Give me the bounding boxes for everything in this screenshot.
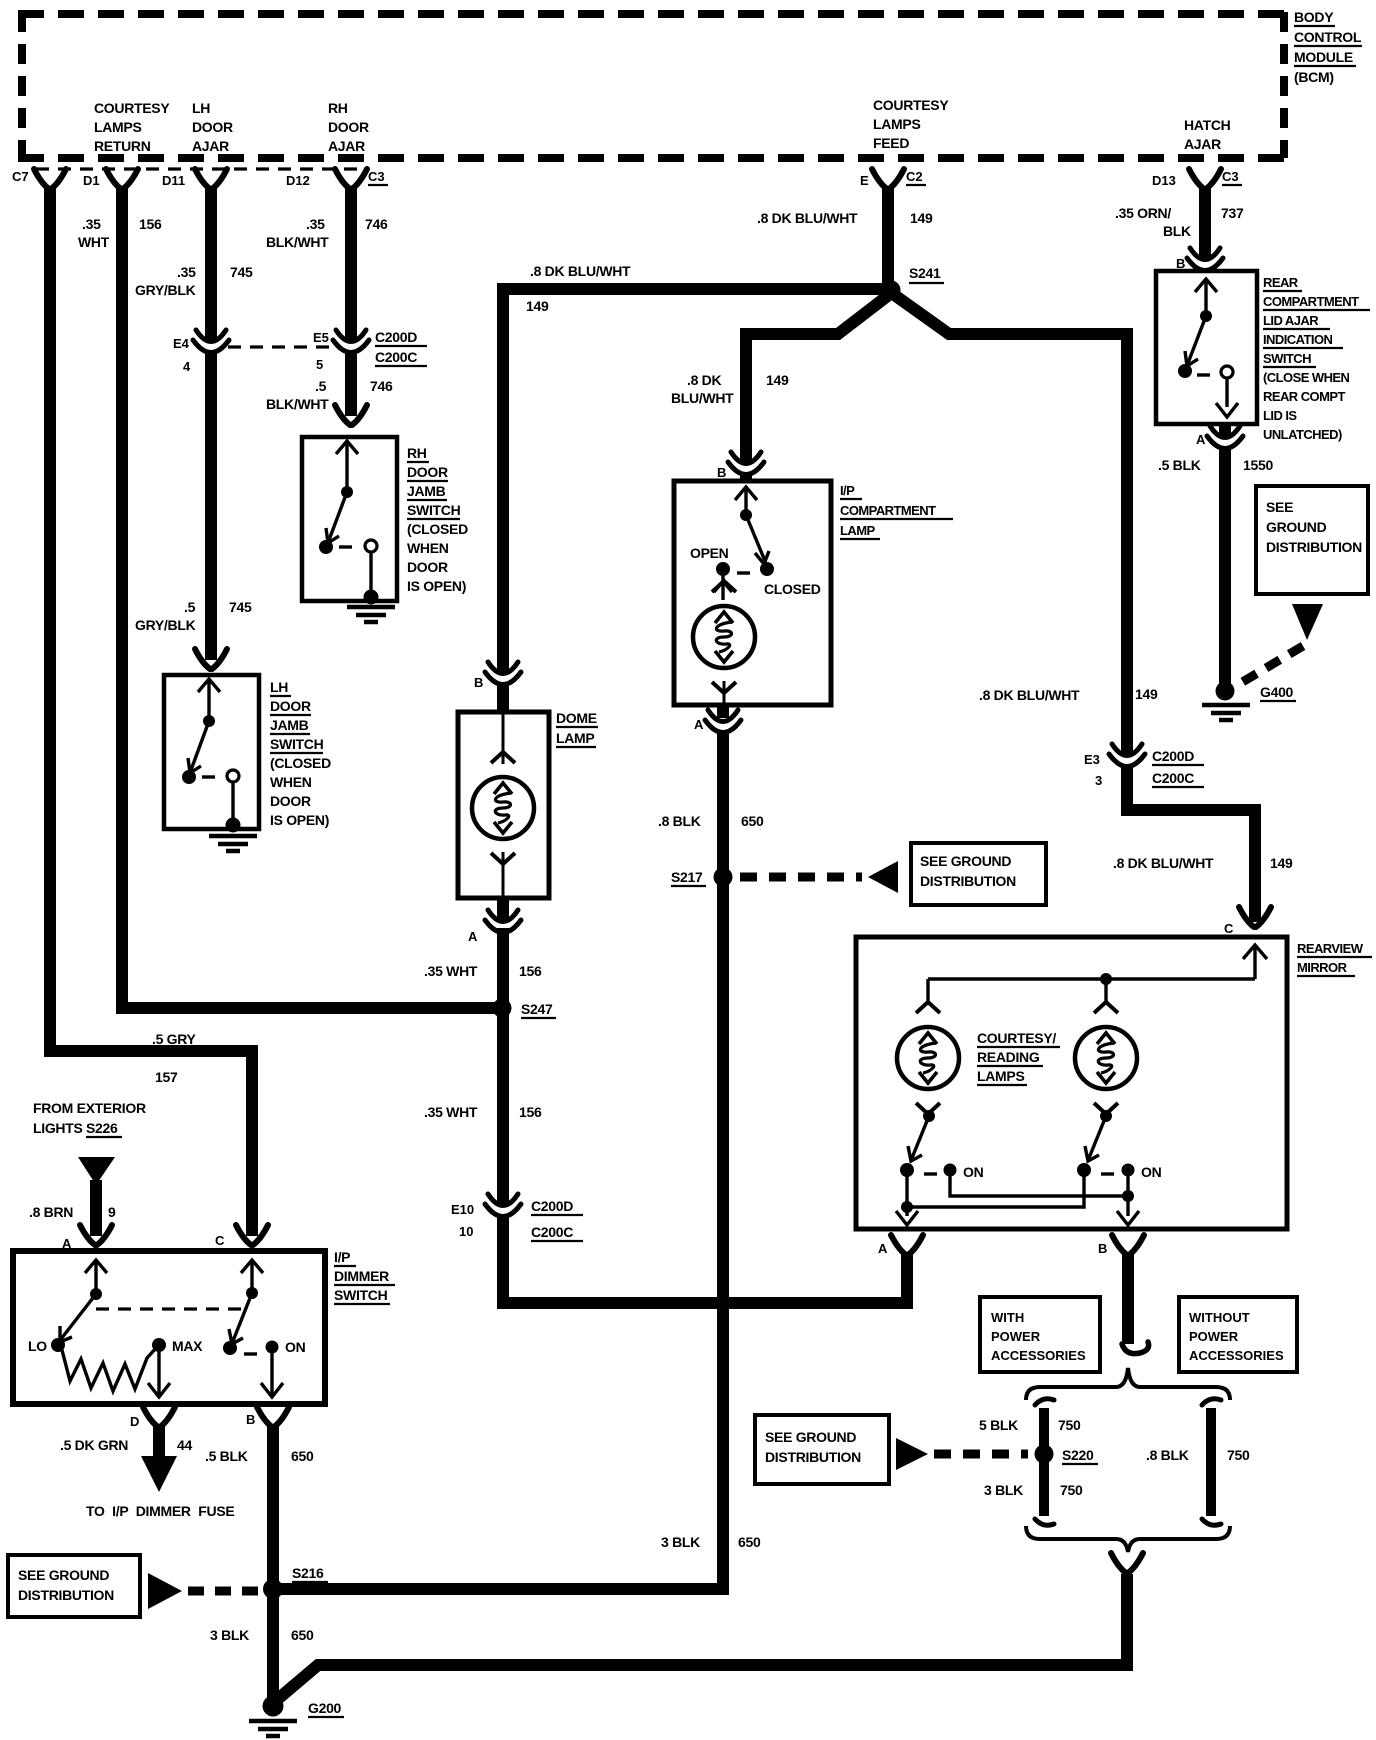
svg-text:149: 149	[526, 298, 549, 314]
connector B of dome lamp	[485, 662, 521, 685]
upper brace	[1026, 1368, 1230, 1400]
svg-text:C200C: C200C	[531, 1224, 573, 1240]
connector B of rear compartment switch	[1199, 254, 1211, 256]
svg-text:C: C	[1224, 921, 1234, 936]
wire .8 BRN 9 to dimmer A	[90, 1180, 102, 1236]
svg-text:DISTRIBUTION: DISTRIBUTION	[920, 873, 1016, 889]
svg-text:LAMPS: LAMPS	[977, 1068, 1025, 1084]
splice S247	[493, 999, 512, 1018]
svg-text:SWITCH: SWITCH	[270, 736, 324, 752]
wire .5 BLK 1550 to G400	[1219, 448, 1231, 684]
connector C7	[34, 169, 66, 189]
courtesy/reading lamps label	[977, 1030, 1056, 1084]
svg-text:S241: S241	[909, 265, 941, 281]
I/P compartment lamp label	[840, 483, 936, 538]
svg-text:AJAR: AJAR	[328, 138, 365, 154]
svg-text:RETURN: RETURN	[94, 138, 151, 154]
svg-text:GRY/BLK: GRY/BLK	[135, 617, 196, 633]
svg-text:.5 BLK: .5 BLK	[205, 1448, 248, 1464]
connector E3 (C200D/C200C)	[1109, 744, 1145, 767]
rear compartment lid switch box	[1156, 271, 1257, 424]
svg-text:S216: S216	[292, 1565, 324, 1581]
svg-text:D12: D12	[286, 173, 310, 188]
svg-text:GROUND: GROUND	[1266, 519, 1327, 535]
label .5 GRY 157	[152, 1031, 197, 1085]
I/P dimmer switch label	[334, 1249, 389, 1303]
arrow to S216	[148, 1573, 182, 1609]
svg-text:GRY/BLK: GRY/BLK	[135, 282, 196, 298]
svg-text:AJAR: AJAR	[192, 138, 229, 154]
svg-text:MODULE: MODULE	[1294, 49, 1353, 65]
ground below RH jamb switch	[347, 607, 395, 622]
wire D11 .35 GRY/BLK 745 down to E4	[205, 186, 217, 342]
svg-text:E10: E10	[451, 1202, 474, 1217]
svg-text:LID IS: LID IS	[1263, 408, 1297, 423]
svg-text:.5: .5	[315, 378, 327, 394]
ground below LH jamb switch	[209, 836, 257, 851]
svg-text:C2: C2	[906, 169, 923, 184]
svg-text:SWITCH: SWITCH	[1263, 351, 1311, 366]
svg-text:SWITCH: SWITCH	[407, 502, 461, 518]
svg-text:POWER: POWER	[991, 1329, 1041, 1344]
svg-text:ON: ON	[1141, 1164, 1162, 1180]
connector E10 (C200D/C200C)	[485, 1194, 521, 1217]
svg-text:SEE GROUND: SEE GROUND	[18, 1567, 109, 1583]
svg-text:WHT: WHT	[78, 234, 110, 250]
splice S216	[263, 1579, 283, 1599]
RH switch internals	[326, 441, 371, 594]
svg-text:650: 650	[291, 1627, 314, 1643]
svg-text:5 BLK: 5 BLK	[979, 1417, 1018, 1433]
svg-text:REARVIEW: REARVIEW	[1297, 941, 1364, 956]
svg-text:.5 BLK: .5 BLK	[1158, 457, 1201, 473]
svg-text:I/P: I/P	[334, 1249, 350, 1265]
svg-text:ACCESSORIES: ACCESSORIES	[991, 1348, 1086, 1363]
svg-text:LAMPS: LAMPS	[873, 116, 921, 132]
svg-text:737: 737	[1221, 205, 1244, 221]
svg-text:D: D	[130, 1414, 139, 1429]
svg-text:C200D: C200D	[1152, 748, 1194, 764]
svg-text:IS OPEN): IS OPEN)	[270, 812, 329, 828]
wire .8 BLK 750 (without power accessories)	[1206, 1408, 1216, 1516]
svg-text:B: B	[246, 1412, 255, 1427]
splice S217	[714, 868, 733, 887]
RH jamb switch label	[407, 445, 468, 594]
svg-text:JAMB: JAMB	[270, 717, 309, 733]
svg-text:746: 746	[365, 216, 388, 232]
svg-text:C: C	[215, 1233, 225, 1248]
svg-text:S247: S247	[521, 1001, 553, 1017]
pin D1	[106, 169, 138, 189]
wire D1 .35 WHT 156 down to S247	[122, 186, 498, 1008]
svg-text:9: 9	[108, 1204, 116, 1220]
connector E5 (C200D/C200C)	[333, 330, 369, 353]
svg-text:3: 3	[1095, 773, 1102, 788]
right mirror switch	[1085, 1116, 1139, 1225]
svg-text:BLK/WHT: BLK/WHT	[266, 234, 329, 250]
wire .5 GRY/BLK 745 E4 to LH jamb switch	[205, 354, 217, 660]
connector fork at LH jamb switch	[195, 649, 227, 669]
svg-text:3 BLK: 3 BLK	[661, 1534, 700, 1550]
svg-text:DOOR: DOOR	[407, 559, 448, 575]
svg-text:DOME: DOME	[556, 710, 597, 726]
svg-text:.8 BLK: .8 BLK	[658, 813, 701, 829]
svg-text:156: 156	[519, 963, 542, 979]
svg-text:650: 650	[291, 1448, 314, 1464]
connector A of rear switch	[1219, 424, 1231, 436]
BCM dashed box	[18, 12, 1284, 158]
left mirror switch	[896, 1116, 1128, 1225]
see ground distribution box (G400)	[1256, 486, 1368, 594]
connector A of dimmer switch	[80, 1225, 112, 1245]
svg-text:156: 156	[139, 216, 162, 232]
svg-text:1550: 1550	[1243, 457, 1273, 473]
dashed link to S220	[934, 1450, 1028, 1459]
svg-text:C200D: C200D	[375, 329, 417, 345]
I/P compartment lamp box	[674, 481, 831, 705]
svg-text:DOOR: DOOR	[270, 698, 311, 714]
LH switch internals	[188, 679, 233, 822]
label .35 WHT 156	[78, 216, 162, 250]
ground G400	[1216, 682, 1235, 701]
wire S241 branch right to E3 (.8 DK BLU/WHT 149)	[893, 294, 1127, 756]
wire .5 BLK/WHT 746 E5 to RH jamb switch	[345, 354, 357, 416]
connector A of I/P compartment lamp	[717, 705, 729, 718]
splice S220	[1035, 1445, 1054, 1464]
svg-text:149: 149	[910, 210, 933, 226]
svg-text:745: 745	[229, 599, 252, 615]
connector A of mirror	[891, 1235, 923, 1255]
svg-text:HATCH: HATCH	[1184, 117, 1231, 133]
svg-text:.35: .35	[306, 216, 325, 232]
pin function labels	[94, 97, 1231, 154]
svg-text:DOOR: DOOR	[407, 464, 448, 480]
svg-text:COMPARTMENT: COMPARTMENT	[840, 503, 936, 518]
arrow down from box	[1292, 604, 1323, 640]
svg-text:DOOR: DOOR	[270, 793, 311, 809]
svg-text:RH: RH	[328, 100, 348, 116]
svg-text:D11: D11	[162, 173, 185, 188]
svg-text:C3: C3	[368, 169, 385, 184]
svg-text:LAMP: LAMP	[840, 523, 876, 538]
I/P lamp switch internals	[714, 487, 769, 600]
pin D12 / connector C3	[335, 169, 367, 189]
svg-text:BLK: BLK	[1163, 223, 1191, 239]
wire 5 BLK / 3 BLK 750 (with power accessories)	[1039, 1408, 1049, 1516]
svg-text:750: 750	[1227, 1447, 1250, 1463]
svg-text:.5 DK GRN: .5 DK GRN	[60, 1437, 128, 1453]
svg-text:BLU/WHT: BLU/WHT	[671, 390, 734, 406]
svg-text:RH: RH	[407, 445, 427, 461]
svg-text:LIGHTS: LIGHTS	[33, 1120, 83, 1136]
svg-text:FROM EXTERIOR: FROM EXTERIOR	[33, 1100, 146, 1116]
svg-text:LH: LH	[192, 100, 210, 116]
wire from braces down to G200 run	[1111, 1553, 1143, 1573]
svg-text:.35 WHT: .35 WHT	[424, 963, 478, 979]
arrow to S217	[868, 861, 898, 893]
wire .35 WHT 156 S247 to E10	[497, 1008, 509, 1206]
svg-text:LAMPS: LAMPS	[94, 119, 142, 135]
dome lamp box	[458, 712, 549, 898]
connector B of dimmer	[257, 1407, 289, 1427]
lower brace	[1026, 1526, 1230, 1552]
svg-text:157: 157	[155, 1069, 178, 1085]
svg-text:.8 BLK: .8 BLK	[1146, 1447, 1189, 1463]
svg-text:C200C: C200C	[1152, 770, 1194, 786]
svg-text:D13: D13	[1152, 173, 1176, 188]
see ground distribution box (S217)	[911, 843, 1046, 905]
svg-text:DISTRIBUTION: DISTRIBUTION	[18, 1587, 114, 1603]
svg-text:.35 WHT: .35 WHT	[424, 1104, 478, 1120]
svg-text:S220: S220	[1062, 1447, 1094, 1463]
connector B of I/P compartment lamp	[728, 452, 764, 475]
svg-text:C200C: C200C	[375, 349, 417, 365]
FROM EXTERIOR LIGHTS S226	[33, 1100, 146, 1136]
I/P lamp bulb	[693, 581, 755, 693]
svg-text:SWITCH: SWITCH	[334, 1287, 388, 1303]
svg-text:.8 DK BLU/WHT: .8 DK BLU/WHT	[1113, 855, 1214, 871]
svg-text:S217: S217	[671, 869, 703, 885]
svg-text:149: 149	[766, 372, 789, 388]
svg-text:TO I/P DIMMER FUSE: TO I/P DIMMER FUSE	[86, 1503, 234, 1519]
label .35 GRY/BLK 745	[135, 264, 253, 298]
rearview mirror box	[856, 937, 1287, 1229]
svg-text:A: A	[878, 1241, 888, 1256]
svg-text:AJAR: AJAR	[1184, 136, 1221, 152]
svg-text:B: B	[1098, 1241, 1107, 1256]
wire .5 BLK 650 dimmer B to S216/G200	[267, 1424, 279, 1698]
courtesy/reading lamp right	[1075, 1002, 1137, 1114]
courtesy/reading lamp left	[897, 1002, 959, 1114]
svg-text:.35: .35	[82, 216, 101, 232]
svg-text:WHEN: WHEN	[270, 774, 312, 790]
svg-text:I/P: I/P	[840, 483, 855, 498]
dashed link to G400	[1234, 646, 1303, 687]
wire .35 WHT 156 dome A to S247	[497, 928, 509, 1008]
svg-text:MAX: MAX	[172, 1338, 203, 1354]
svg-text:INDICATION: INDICATION	[1263, 332, 1333, 347]
svg-text:C3: C3	[1222, 169, 1239, 184]
svg-text:COURTESY: COURTESY	[873, 97, 949, 113]
label .35 BLK/WHT 746	[266, 216, 388, 250]
svg-text:ON: ON	[285, 1339, 306, 1355]
connector E4 (C200D/C200C)	[193, 330, 229, 353]
svg-text:A: A	[1196, 432, 1206, 447]
wire E .8 DK BLU/WHT 149 down to S241	[882, 186, 894, 288]
see ground distribution box (S220)	[755, 1415, 889, 1484]
svg-text:CONTROL: CONTROL	[1294, 29, 1362, 45]
svg-text:746: 746	[370, 378, 393, 394]
svg-text:DISTRIBUTION: DISTRIBUTION	[1266, 539, 1362, 555]
svg-text:750: 750	[1060, 1482, 1083, 1498]
ground G200	[263, 1696, 284, 1717]
mirror internal feed from C	[928, 945, 1267, 1004]
svg-text:LH: LH	[270, 679, 288, 695]
svg-text:BODY: BODY	[1294, 9, 1334, 25]
arrow to S220	[896, 1438, 928, 1470]
svg-text:POWER: POWER	[1189, 1329, 1239, 1344]
svg-text:149: 149	[1135, 686, 1158, 702]
svg-text:.8 DK BLU/WHT: .8 DK BLU/WHT	[757, 210, 858, 226]
svg-text:(BCM): (BCM)	[1294, 69, 1334, 85]
pin E / connector C2	[872, 169, 904, 189]
dashed link to S216	[188, 1587, 258, 1596]
svg-text:ACCESSORIES: ACCESSORIES	[1189, 1348, 1284, 1363]
svg-text:WITHOUT: WITHOUT	[1189, 1310, 1250, 1325]
svg-text:SEE: SEE	[1266, 499, 1293, 515]
svg-text:C7: C7	[12, 169, 29, 184]
rear switch label	[1263, 275, 1359, 442]
svg-text:SEE GROUND: SEE GROUND	[920, 853, 1011, 869]
wire D13 .35 ORN/BLK 737 down to rear switch B	[1199, 186, 1211, 260]
pin D11	[195, 169, 227, 189]
wire S241 branch to I/P compartment lamp	[746, 294, 890, 464]
svg-text:750: 750	[1058, 1417, 1081, 1433]
svg-text:S226: S226	[86, 1120, 118, 1136]
svg-text:.8 BRN: .8 BRN	[29, 1204, 73, 1220]
wire E10 to rearview mirror A	[503, 1218, 907, 1303]
wire mirror B down to brace	[1122, 1254, 1134, 1344]
connector fork at RH jamb switch	[335, 405, 367, 425]
svg-text:READING: READING	[977, 1049, 1040, 1065]
svg-text:BLK/WHT: BLK/WHT	[266, 396, 329, 412]
svg-text:(CLOSED: (CLOSED	[407, 521, 468, 537]
pin D13 / connector C3	[1189, 169, 1221, 189]
connector A of dome lamp	[497, 898, 509, 920]
svg-text:LAMP: LAMP	[556, 730, 594, 746]
svg-text:COMPARTMENT: COMPARTMENT	[1263, 294, 1359, 309]
svg-text:UNLATCHED): UNLATCHED)	[1263, 427, 1342, 442]
svg-text:A: A	[694, 717, 704, 732]
svg-text:44: 44	[177, 1437, 192, 1453]
wire S241 left branch to dome lamp (.8 DK BLU/WHT 149)	[503, 289, 888, 674]
wire .5 DK GRN 44 to I/P dimmer fuse	[153, 1424, 165, 1458]
dashed link E4-E5	[228, 345, 330, 348]
svg-text:E3: E3	[1084, 752, 1100, 767]
svg-text:E4: E4	[173, 336, 190, 351]
svg-text:SEE GROUND: SEE GROUND	[765, 1429, 856, 1445]
svg-text:C200D: C200D	[531, 1198, 573, 1214]
svg-text:LO: LO	[28, 1338, 47, 1354]
label .35 ORN/BLK 737	[1115, 205, 1244, 239]
dashed link S217 to ground distribution	[740, 873, 862, 882]
svg-text:LID AJAR: LID AJAR	[1263, 313, 1319, 328]
svg-text:JAMB: JAMB	[407, 483, 446, 499]
wire D12 .35 BLK/WHT 746 down to E5	[345, 186, 357, 342]
svg-text:.8 DK BLU/WHT: .8 DK BLU/WHT	[979, 687, 1080, 703]
svg-text:G400: G400	[1260, 684, 1294, 700]
svg-text:149: 149	[1270, 855, 1293, 871]
svg-text:156: 156	[519, 1104, 542, 1120]
svg-text:.8 DK BLU/WHT: .8 DK BLU/WHT	[530, 263, 631, 279]
svg-text:D1: D1	[83, 173, 100, 188]
LH door jamb switch box	[164, 675, 259, 829]
LH jamb switch label	[270, 679, 331, 828]
svg-text:MIRROR: MIRROR	[1297, 960, 1348, 975]
label 3 BLK 650 (S216 run)	[661, 1534, 761, 1550]
svg-text:4: 4	[183, 359, 191, 374]
svg-text:COURTESY: COURTESY	[94, 100, 170, 116]
svg-text:DISTRIBUTION: DISTRIBUTION	[765, 1449, 861, 1465]
svg-text:WHEN: WHEN	[407, 540, 449, 556]
connector B of mirror	[1112, 1235, 1144, 1255]
svg-text:E: E	[860, 173, 869, 188]
svg-text:3 BLK: 3 BLK	[984, 1482, 1023, 1498]
wire .8 BLK 650 down from I/P lamp A to S216 run	[280, 730, 723, 1589]
svg-text:REAR: REAR	[1263, 275, 1299, 290]
RH door jamb switch box	[302, 437, 397, 601]
label .8 DK BLU/WHT 149 (feed)	[757, 210, 933, 226]
svg-text:DOOR: DOOR	[192, 119, 233, 135]
rear switch internals	[1185, 279, 1238, 417]
svg-text:(CLOSE WHEN: (CLOSE WHEN	[1263, 370, 1350, 385]
svg-text:(CLOSED: (CLOSED	[270, 755, 331, 771]
svg-text:745: 745	[230, 264, 253, 280]
svg-text:3 BLK: 3 BLK	[210, 1627, 249, 1643]
svg-text:CLOSED: CLOSED	[764, 581, 821, 597]
with power accessories box	[980, 1297, 1100, 1372]
svg-text:B: B	[474, 675, 483, 690]
dimmer internals C side	[229, 1260, 283, 1397]
dimmer internals A side	[60, 1260, 170, 1397]
dome lamp bulb	[502, 712, 505, 764]
splice S241	[882, 281, 901, 300]
svg-text:A: A	[468, 929, 478, 944]
svg-text:5: 5	[316, 357, 323, 372]
see ground distribution box (S216)	[8, 1555, 140, 1617]
svg-text:10: 10	[459, 1224, 473, 1239]
wire C7 .5 GRY 157 down-right to dimmer C	[50, 186, 252, 1236]
svg-text:.8 DK: .8 DK	[687, 372, 721, 388]
svg-text:WITH: WITH	[991, 1310, 1024, 1325]
svg-text:FEED: FEED	[873, 135, 909, 151]
svg-text:.5: .5	[184, 599, 196, 615]
svg-text:OPEN: OPEN	[690, 545, 729, 561]
BCM label	[1294, 9, 1362, 85]
svg-text:IS OPEN): IS OPEN)	[407, 578, 466, 594]
without power accessories box	[1179, 1297, 1297, 1372]
connector C of dimmer switch	[236, 1225, 268, 1245]
svg-text:.5 GRY: .5 GRY	[152, 1031, 197, 1047]
svg-text:650: 650	[741, 813, 764, 829]
svg-text:E5: E5	[313, 330, 329, 345]
thin dashed connector line under BCM	[36, 167, 358, 170]
svg-text:REAR COMPT: REAR COMPT	[1263, 389, 1345, 404]
svg-text:ON: ON	[963, 1164, 984, 1180]
svg-text:.35: .35	[177, 264, 196, 280]
I/P dimmer switch box	[13, 1251, 325, 1404]
svg-text:B: B	[717, 465, 726, 480]
svg-text:650: 650	[738, 1534, 761, 1550]
wire E3 to rearview mirror C (.8 DK BLU/WHT 149)	[1127, 768, 1255, 922]
connector C of rearview mirror	[1239, 907, 1271, 927]
svg-text:.35 ORN/: .35 ORN/	[1115, 205, 1171, 221]
svg-text:G200: G200	[308, 1700, 342, 1716]
svg-text:COURTESY/: COURTESY/	[977, 1030, 1056, 1046]
connector D of dimmer	[143, 1407, 175, 1427]
svg-text:DOOR: DOOR	[328, 119, 369, 135]
off-page triangle from S226	[78, 1157, 115, 1185]
svg-text:DIMMER: DIMMER	[334, 1268, 389, 1284]
